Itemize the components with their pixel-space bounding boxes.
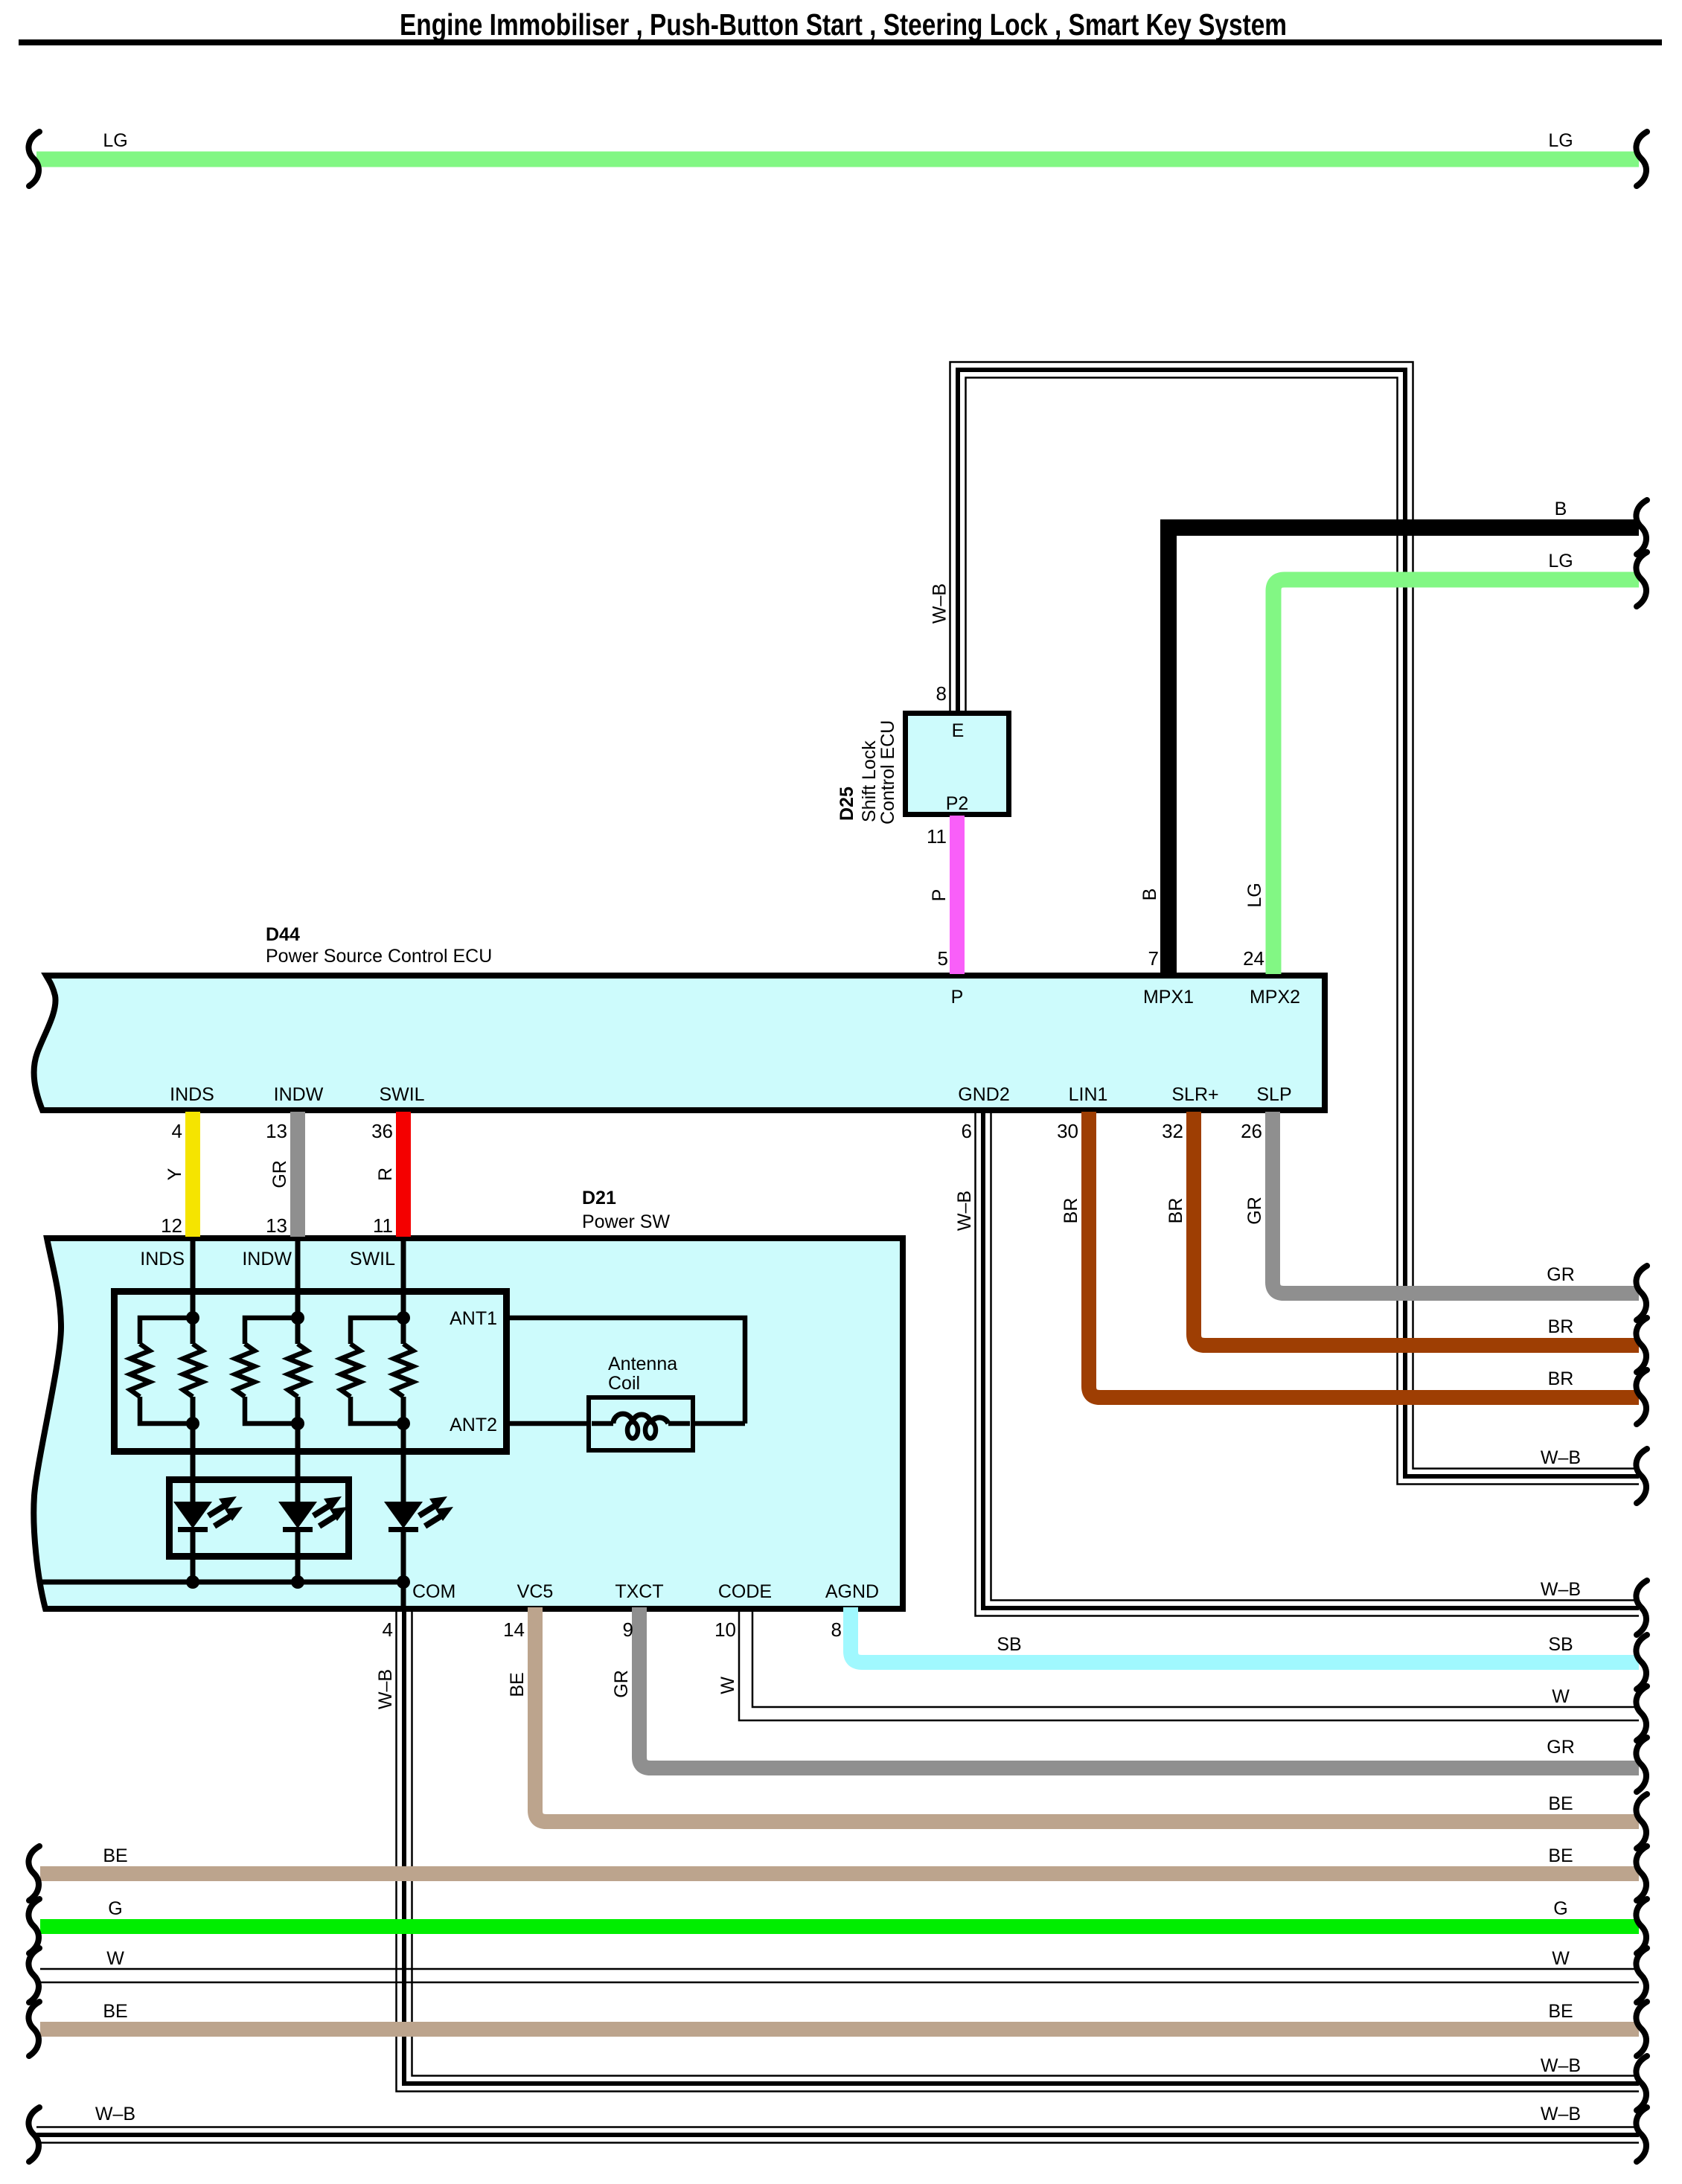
wire INDS vertical inside D21 — [191, 1238, 196, 1582]
pin number 26 at (1696,1529) — [1241, 1120, 1262, 1142]
pin label MPX1 on D44 — [1143, 987, 1194, 1008]
svg-text:26: 26 — [1241, 1120, 1262, 1142]
pin label SLP on D44 — [1256, 1084, 1291, 1105]
wire break squiggle right at y=2518 — [1636, 1846, 1647, 1900]
pin label COM on D21 — [412, 1581, 455, 1602]
wire label GR at (2097,1721) — [1547, 1264, 1575, 1285]
svg-text:SB: SB — [1548, 1634, 1573, 1655]
wire break squiggle right at y=2655 — [1636, 1948, 1647, 2002]
pin label P2 on D25 — [946, 793, 969, 814]
pin number 13 at (386,1529) — [266, 1120, 287, 1142]
svg-text:8: 8 — [831, 1618, 842, 1641]
pin label CODE on D21 — [718, 1581, 772, 1602]
svg-text:INDS: INDS — [170, 1084, 214, 1105]
wire label BR at (2097,1861) — [1548, 1368, 1574, 1389]
pin label ANT1 — [450, 1308, 497, 1329]
LED D1 on INDS line — [173, 1496, 243, 1532]
svg-text:Coil: Coil — [608, 1373, 640, 1394]
LED D3 on SWIL line — [384, 1496, 453, 1532]
svg-text:36: 36 — [371, 1120, 393, 1142]
svg-text:Control ECU: Control ECU — [877, 720, 898, 824]
wire COM stub through D21 bottom edge — [401, 1582, 406, 1609]
svg-text:LG: LG — [1244, 883, 1265, 907]
wire SB from D21 pin 8 AGND down then right to right edge — [851, 1607, 1639, 1662]
pin label SLR+ on D44 — [1171, 1084, 1218, 1105]
wire label W-B at (2097,2849) — [1541, 2104, 1581, 2124]
svg-text:W: W — [1552, 1686, 1570, 1707]
svg-text:P: P — [929, 889, 950, 902]
svg-text:12: 12 — [161, 1214, 182, 1237]
label D21 name Power SW — [582, 1211, 670, 1232]
svg-text:BE: BE — [1548, 1845, 1573, 1866]
wire label W at (155,2640) — [106, 1948, 124, 1969]
svg-text:W–B: W–B — [954, 1191, 975, 1231]
svg-text:SLR+: SLR+ — [1171, 1084, 1218, 1105]
svg-text:W–B: W–B — [1541, 2104, 1581, 2124]
wire break squiggle right at y=1808 — [1636, 1318, 1647, 1372]
wire colour label W-B rotated at (526,2270) — [375, 1669, 396, 1709]
pin number 6 at (1306,1529) — [962, 1120, 972, 1142]
wire break squiggle left at y=2727 — [28, 2002, 39, 2056]
wire label SB at (1356,2218) — [997, 1634, 1021, 1655]
wire break squiggle left at y=214 — [28, 132, 39, 186]
wire label W-B at (2097,2784) — [1541, 2055, 1581, 2076]
label D25 name Control ECU rotated — [877, 720, 898, 824]
wire R from D44 pin 36 SWIL to D21 pin 11 — [396, 1112, 411, 1237]
label D44 name Power Source Control ECU — [266, 946, 492, 967]
wire BE full-width bus — [40, 1866, 1639, 1881]
wire colour label GR rotated at (1694,1627) — [1244, 1197, 1265, 1225]
wire W-B from D25 pin 8 E up over and down right side to right edge — [950, 362, 1640, 1485]
svg-text:MPX1: MPX1 — [1143, 987, 1194, 1008]
svg-text:24: 24 — [1243, 947, 1264, 970]
pin label LIN1 on D44 — [1069, 1084, 1108, 1105]
COM bus line inside D21 — [42, 1580, 403, 1585]
pin label GND2 on D44 — [958, 1084, 1009, 1105]
wire break squiggle right at y=2372 — [1636, 1738, 1647, 1792]
svg-text:11: 11 — [373, 1214, 393, 1237]
antenna coil box — [589, 1397, 693, 1450]
svg-text:SLP: SLP — [1256, 1084, 1291, 1105]
pin number 30 at (1449,1529) — [1057, 1120, 1078, 1142]
pin number 4 at (528,2199) — [383, 1618, 393, 1641]
svg-text:14: 14 — [503, 1618, 525, 1641]
wire break squiggle left at y=2869 — [28, 2107, 39, 2162]
svg-text:Y: Y — [164, 1168, 185, 1180]
pin label SWIL on D44 — [379, 1084, 424, 1105]
svg-text:Power Source Control ECU: Power Source Control ECU — [266, 946, 492, 967]
svg-text:ANT1: ANT1 — [450, 1308, 497, 1329]
inner antenna/resistor box inside D21 — [115, 1292, 507, 1452]
svg-text:TXCT: TXCT — [615, 1581, 663, 1602]
wire break squiggle right at y=779 — [1636, 552, 1647, 606]
wire BE full-width bus 2 — [40, 2022, 1639, 2037]
wire W full-width bus — [40, 1969, 1639, 1982]
wire break squiggle right at y=1738 — [1636, 1266, 1647, 1320]
wire label BE at (2097,2502) — [1548, 1845, 1573, 1866]
title rule — [19, 39, 1662, 45]
svg-text:BE: BE — [103, 2001, 127, 2022]
wire P from D25 pin 11 to D44 pin 5 — [950, 816, 965, 974]
wire label BE at (155,2711) — [103, 2001, 127, 2022]
svg-text:P: P — [951, 987, 964, 1008]
pin number 4 at (245,1529) — [172, 1120, 182, 1142]
svg-text:BR: BR — [1165, 1198, 1186, 1224]
wire GR from D21 pin 9 TXCT down then right to right edge — [639, 1607, 1639, 1768]
pin number 13 at (386,1656) — [266, 1214, 287, 1237]
wire colour label BR rotated at (1588,1627) — [1165, 1198, 1186, 1224]
svg-text:VC5: VC5 — [517, 1581, 554, 1602]
svg-text:Engine Immobiliser , Push-Butt: Engine Immobiliser , Push-Button Start ,… — [400, 7, 1287, 42]
wire break squiggle right at y=214 — [1636, 132, 1647, 186]
wire label BR at (2097,1791) — [1548, 1316, 1574, 1337]
svg-text:9: 9 — [623, 1618, 633, 1641]
wire break squiggle right at y=2161 — [1636, 1581, 1647, 1635]
resistor pair on INDS line — [130, 1318, 202, 1424]
pin label E on D25 — [952, 720, 965, 741]
wire colour label P rotated at (1270,1203) — [929, 889, 950, 902]
switch D21 Power SW box — [33, 1238, 903, 1609]
svg-text:W: W — [106, 1948, 124, 1969]
svg-text:W: W — [1552, 1948, 1570, 1969]
wire break squiggle right at y=2869 — [1636, 2107, 1647, 2162]
wire BR from D44 pin 32 SLR+ down then right to right edge — [1194, 1112, 1639, 1345]
pin number 12 at (245,1656) — [161, 1214, 182, 1237]
svg-text:INDW: INDW — [274, 1084, 324, 1105]
pin label P on D44 — [951, 987, 964, 1008]
svg-text:13: 13 — [266, 1120, 287, 1142]
svg-text:BR: BR — [1061, 1198, 1081, 1224]
wire label BE at (2097,2432) — [1548, 1793, 1573, 1814]
pin number 10 at (989,2199) — [714, 1618, 736, 1641]
svg-text:SWIL: SWIL — [350, 1249, 395, 1269]
pin number 5 at (1274,1297) — [938, 947, 948, 970]
wire BR from D44 pin 30 LIN1 down then right to right edge — [1089, 1112, 1639, 1397]
wire label SB at (2097,2218) — [1548, 1634, 1573, 1655]
svg-text:D25: D25 — [837, 787, 857, 821]
wire label W at (2097,2640) — [1552, 1948, 1570, 1969]
svg-text:7: 7 — [1148, 947, 1159, 970]
svg-text:W–B: W–B — [1541, 2055, 1581, 2076]
wire BE from D21 pin 14 VC5 down then right to right edge — [535, 1607, 1639, 1822]
pin number 9 at (851,2199) — [623, 1618, 633, 1641]
wire break squiggle right at y=2589 — [1636, 1899, 1647, 1953]
wire colour label R rotated at (526,1578) — [375, 1168, 396, 1181]
wire label G at (155,2573) — [108, 1898, 122, 1919]
wire colour label LG rotated at (1694,1203) — [1244, 883, 1265, 907]
resistor pair on SWIL line — [341, 1318, 413, 1424]
svg-text:ANT2: ANT2 — [450, 1415, 497, 1435]
wire colour label GR rotated at (384,1578) — [269, 1160, 290, 1188]
svg-text:W–B: W–B — [1541, 1447, 1581, 1468]
svg-text:GR: GR — [1244, 1197, 1265, 1225]
svg-text:Shift Lock: Shift Lock — [859, 740, 880, 822]
wire label GR at (2097,2356) — [1547, 1737, 1575, 1758]
wire LG top bus full width — [36, 152, 1639, 167]
wire break squiggle left at y=2655 — [28, 1948, 39, 2002]
pin number 7 at (1557,1297) — [1148, 947, 1159, 970]
svg-text:4: 4 — [383, 1618, 393, 1641]
svg-text:10: 10 — [714, 1618, 736, 1641]
pin number 14 at (705,2199) — [503, 1618, 525, 1641]
svg-text:BE: BE — [1548, 2001, 1573, 2022]
wire SWIL vertical inside D21 — [401, 1238, 406, 1582]
svg-text:E: E — [952, 720, 965, 741]
label D25 name Shift Lock rotated — [859, 740, 880, 822]
wire ANT1 from resistor box to antenna coil — [508, 1318, 745, 1424]
svg-text:CODE: CODE — [718, 1581, 772, 1602]
svg-text:30: 30 — [1057, 1120, 1078, 1142]
svg-text:INDW: INDW — [242, 1249, 292, 1269]
pin label INDW on D21 — [242, 1249, 292, 1269]
pin label TXCT on D21 — [615, 1581, 663, 1602]
svg-text:LG: LG — [1548, 551, 1573, 571]
wire label LG at (2097,762) — [1548, 551, 1573, 571]
wire break squiggle right at y=2800 — [1636, 2056, 1647, 2110]
svg-text:Power SW: Power SW — [582, 1211, 670, 1232]
svg-text:GR: GR — [1547, 1737, 1575, 1758]
wire label W-B at (2097,2144) — [1541, 1579, 1581, 1600]
wire GR from D44 pin 26 SLP down then right to right edge — [1273, 1112, 1639, 1293]
svg-text:6: 6 — [962, 1120, 972, 1142]
svg-text:8: 8 — [936, 682, 947, 705]
wire break squiggle left at y=2518 — [28, 1846, 39, 1900]
pin number 24 at (1699,1297) — [1243, 947, 1264, 970]
pin label VC5 on D21 — [517, 1581, 554, 1602]
pin number 11 at (1272,1133) — [927, 825, 947, 848]
wire break squiggle right at y=1984 — [1636, 1449, 1647, 1503]
svg-text:LIN1: LIN1 — [1069, 1084, 1108, 1105]
svg-text:LG: LG — [103, 130, 127, 151]
wire W-B from D21 pin 4 COM down then right to right edge — [397, 1607, 1640, 2092]
wire colour label BR rotated at (1447,1627) — [1061, 1198, 1081, 1224]
svg-text:W: W — [717, 1677, 738, 1694]
pin number 11 at (528,1656) — [373, 1214, 393, 1237]
wire Y from D44 pin 4 INDS to D21 pin 12 — [185, 1112, 200, 1237]
node junction dots on INDS line — [186, 1311, 199, 1430]
svg-text:Antenna: Antenna — [608, 1354, 677, 1374]
pin label INDS on D21 — [140, 1249, 185, 1269]
svg-text:W–B: W–B — [930, 583, 950, 624]
svg-text:W–B: W–B — [1541, 1579, 1581, 1600]
wire break squiggle right at y=2448 — [1636, 1794, 1647, 1848]
wire label G at (2097,2573) — [1553, 1898, 1567, 1919]
pin number 8 at (1272,941) — [936, 682, 947, 705]
svg-text:AGND: AGND — [825, 1581, 879, 1602]
wire label W at (2097,2288) — [1552, 1686, 1570, 1707]
svg-text:R: R — [375, 1168, 396, 1181]
inductor antenna coil symbol — [592, 1414, 690, 1438]
svg-text:W–B: W–B — [95, 2104, 135, 2124]
svg-text:D44: D44 — [266, 924, 300, 945]
title: system heading — [400, 7, 1287, 42]
svg-text:B: B — [1555, 499, 1567, 519]
wire break squiggle right at y=1878 — [1636, 1370, 1647, 1424]
node junction dots on INDW line — [291, 1311, 304, 1430]
svg-text:32: 32 — [1162, 1120, 1183, 1142]
label D44 designator — [266, 924, 300, 945]
wire label W-B at (155,2849) — [95, 2104, 135, 2124]
wire B from right edge to D44 pin 7 MPX1 — [1168, 528, 1639, 974]
svg-text:LG: LG — [1548, 130, 1573, 151]
svg-text:MPX2: MPX2 — [1250, 987, 1300, 1008]
junction dots on COM bus — [186, 1575, 410, 1589]
svg-text:INDS: INDS — [140, 1249, 185, 1269]
ECU D25 Shift Lock Control ECU box — [906, 714, 1009, 815]
svg-text:GR: GR — [1547, 1264, 1575, 1285]
wire ANT2 from resistor box to antenna coil box — [508, 1421, 745, 1426]
wire colour label B rotated at (1553,1202) — [1139, 888, 1160, 901]
wire break squiggle right at y=709 — [1636, 500, 1647, 554]
wire W from D21 pin 10 CODE down then right to right edge — [739, 1607, 1639, 1720]
wire colour label W rotated at (986,2265) — [717, 1677, 738, 1694]
wire W-B from D44 pin 6 GND2 down then right to right edge — [976, 1112, 1640, 1616]
svg-text:SWIL: SWIL — [379, 1084, 424, 1105]
label Antenna Coil — [608, 1354, 677, 1394]
wire colour label W-B rotated at (1270.5,811) — [930, 583, 950, 624]
wire LG from right edge to D44 pin 24 MPX2 — [1273, 580, 1639, 974]
label D21 designator — [582, 1188, 616, 1208]
node junction dots on SWIL line — [397, 1311, 410, 1430]
wire label BE at (155,2502) — [103, 1845, 127, 1866]
pin number 8 at (1131,2199) — [831, 1618, 842, 1641]
svg-text:4: 4 — [172, 1120, 182, 1142]
wire label LG at (155,197) — [103, 130, 127, 151]
wire GR from D44 pin 13 INDW to D21 pin 13 — [290, 1112, 305, 1237]
svg-text:11: 11 — [927, 825, 947, 848]
pin label SWIL on D21 — [350, 1249, 395, 1269]
pin label ANT2 — [450, 1415, 497, 1435]
svg-text:G: G — [1553, 1898, 1567, 1919]
wire colour label BE rotated at (703,2264) — [507, 1672, 528, 1697]
wire label B at (2097,692) — [1555, 499, 1567, 519]
pin number 32 at (1590,1529) — [1162, 1120, 1183, 1142]
svg-text:D21: D21 — [582, 1188, 616, 1208]
pin label INDW on D44 — [274, 1084, 324, 1105]
svg-text:BR: BR — [1548, 1368, 1574, 1389]
wire break squiggle right at y=2234 — [1636, 1635, 1647, 1689]
svg-text:B: B — [1139, 888, 1160, 901]
wire colour label Y rotated at (243,1578) — [164, 1168, 185, 1180]
svg-text:BR: BR — [1548, 1316, 1574, 1337]
wire break squiggle left at y=2589 — [28, 1899, 39, 1953]
svg-text:BE: BE — [103, 1845, 127, 1866]
svg-text:GR: GR — [611, 1670, 632, 1698]
svg-text:GND2: GND2 — [958, 1084, 1009, 1105]
wire label LG at (2097,197) — [1548, 130, 1573, 151]
ECU D44 Power Source Control ECU box — [34, 976, 1325, 1110]
pin label AGND on D21 — [825, 1581, 879, 1602]
resistor pair on INDW line — [235, 1318, 307, 1424]
svg-text:GR: GR — [269, 1160, 290, 1188]
svg-text:13: 13 — [266, 1214, 287, 1237]
svg-text:G: G — [108, 1898, 122, 1919]
wire colour label W-B rotated at (1304,1627) — [954, 1191, 975, 1231]
wire INDW vertical inside D21 — [295, 1238, 301, 1582]
svg-text:COM: COM — [412, 1581, 455, 1602]
wire break squiggle right at y=2727 — [1636, 2002, 1647, 2056]
svg-text:5: 5 — [938, 947, 948, 970]
label D25 designator rotated — [837, 787, 857, 821]
wire break squiggle right at y=2303 — [1636, 1686, 1647, 1741]
svg-text:BE: BE — [507, 1672, 528, 1697]
wire W-B full-width bus — [36, 2127, 1639, 2143]
LED box inside D21 — [170, 1480, 349, 1557]
wire label W-B at (2097,1967) — [1541, 1447, 1581, 1468]
pin label MPX2 on D44 — [1250, 987, 1300, 1008]
svg-text:BE: BE — [1548, 1793, 1573, 1814]
wire label BE at (2097,2711) — [1548, 2001, 1573, 2022]
wire G full-width bus — [40, 1919, 1639, 1934]
LED D2 on INDW line — [278, 1496, 348, 1532]
svg-text:W–B: W–B — [375, 1669, 396, 1709]
pin label INDS on D44 — [170, 1084, 214, 1105]
svg-text:SB: SB — [997, 1634, 1021, 1655]
wire colour label GR rotated at (843,2263) — [611, 1670, 632, 1698]
pin number 36 at (528,1529) — [371, 1120, 393, 1142]
svg-text:P2: P2 — [946, 793, 969, 814]
